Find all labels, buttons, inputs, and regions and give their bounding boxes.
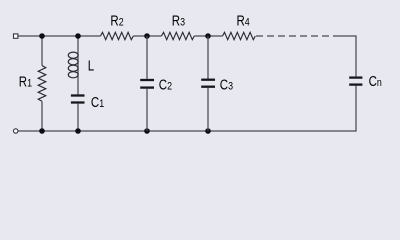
wire bottom rail <box>18 130 356 132</box>
terminal input top-left (open square) <box>14 34 18 38</box>
wire top rail right solid segment to corner <box>333 36 356 76</box>
wire dashed continuation after R4 <box>256 35 333 37</box>
node dot bottom C2 <box>144 128 150 134</box>
label Cn <box>369 73 382 90</box>
label R3 <box>172 12 186 29</box>
svg-text:L: L <box>88 57 94 74</box>
label R4 <box>237 12 251 29</box>
resistor R2 <box>101 32 134 39</box>
node dot bottom C3 <box>205 128 211 134</box>
resistor R4 <box>223 32 256 39</box>
capacitor C2 <box>140 36 154 131</box>
node dot bottom C1 <box>75 128 81 134</box>
label L <box>88 57 94 74</box>
inductor L (vertical coil) <box>68 36 78 94</box>
node dot top R1 <box>39 33 45 39</box>
node dot top C3 <box>205 33 211 39</box>
node dot top L <box>75 33 81 39</box>
label R1 <box>19 73 33 90</box>
wire Cn bottom lead <box>355 86 357 132</box>
label C3 <box>220 76 234 93</box>
wire top rail between R3 and R4 <box>194 35 222 37</box>
capacitor Cn <box>349 78 362 85</box>
terminal input bottom-left (open circle) <box>14 129 18 133</box>
resistor R3 <box>162 32 195 39</box>
wire top rail between R2 and R3 <box>133 35 161 37</box>
node dot bottom R1 <box>39 128 45 134</box>
resistor R1 (vertical) <box>38 36 46 131</box>
capacitor C1 <box>71 96 85 132</box>
node dot top C2 <box>144 33 150 39</box>
label R2 <box>110 12 124 29</box>
label C1 <box>91 94 105 111</box>
capacitor C3 <box>201 36 215 131</box>
label C2 <box>159 76 173 93</box>
wire top rail left segment <box>18 35 101 37</box>
